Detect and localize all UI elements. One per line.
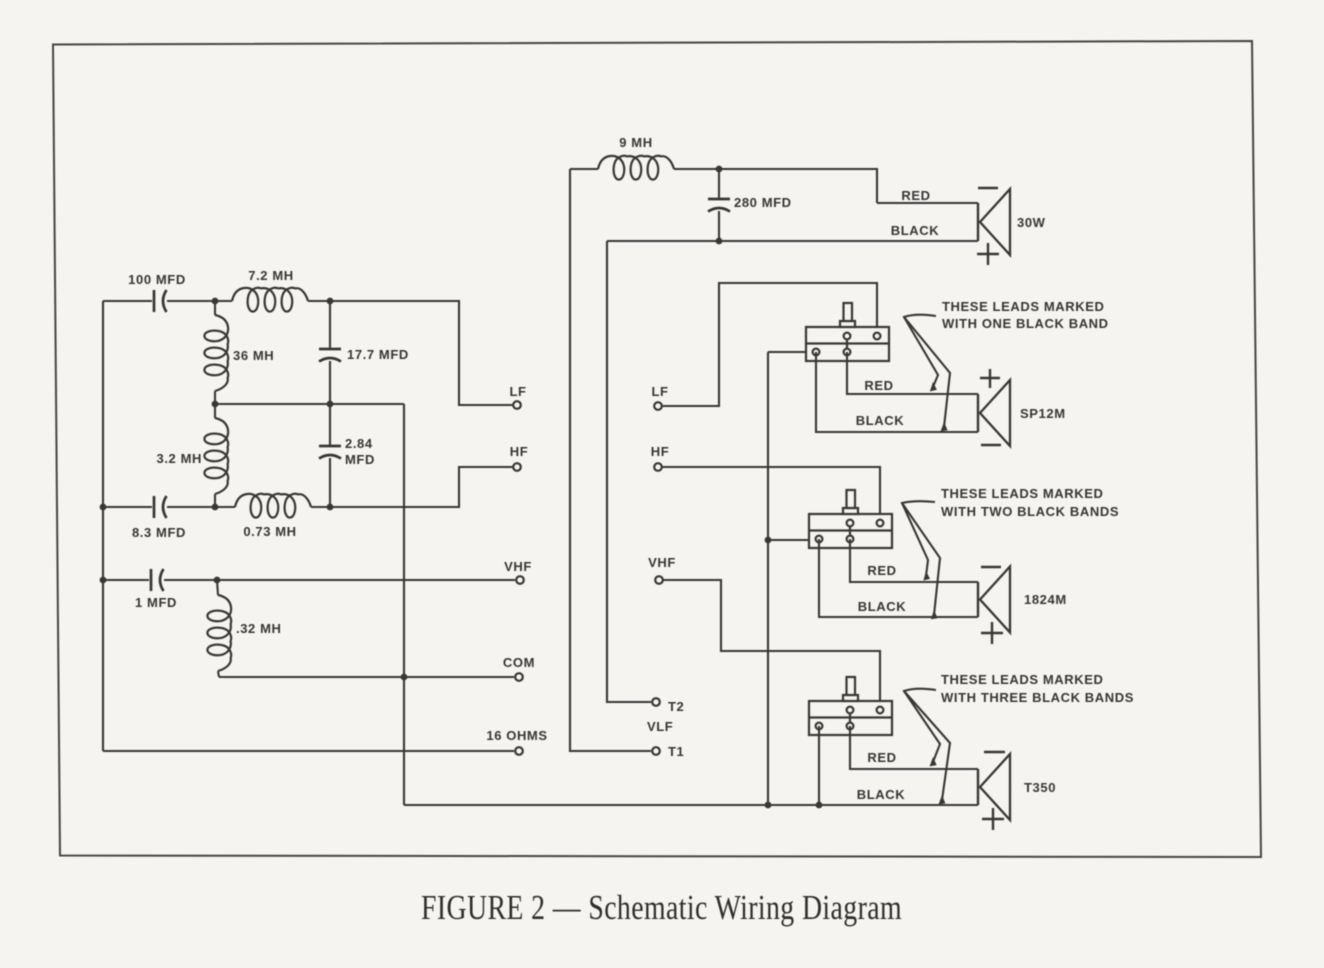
wire row3 seg a bbox=[103, 506, 152, 508]
svg-text:VHF: VHF bbox=[504, 559, 532, 574]
svg-text:1824M: 1824M bbox=[1024, 592, 1067, 607]
capacitor 2.84 MFD bbox=[319, 445, 341, 448]
svg-text:.32 MH: .32 MH bbox=[236, 621, 282, 636]
node row1-17.7MFD junction bbox=[327, 298, 334, 305]
svg-text:WITH THREE BLACK BANDS: WITH THREE BLACK BANDS bbox=[941, 690, 1134, 705]
speaker SP12M bbox=[980, 380, 1010, 446]
svg-text:FIGURE 2 — Schematic Wiring Di: FIGURE 2 — Schematic Wiring Diagram bbox=[421, 888, 902, 927]
wire 30W RED wire bbox=[877, 202, 978, 204]
speaker 30W bbox=[980, 189, 1010, 255]
inductor 7.2 MH bbox=[232, 288, 308, 312]
terminal HF left bbox=[513, 463, 521, 471]
terminal VHF left bbox=[516, 576, 524, 584]
wire bottom common wire bbox=[404, 804, 978, 806]
wire row1 seg a bbox=[103, 300, 152, 302]
polarity plus SP12M bbox=[980, 369, 1000, 388]
svg-text:HF: HF bbox=[510, 444, 529, 459]
wire 17.7MFD bottom lead bbox=[329, 361, 331, 404]
L-pad control 1 bbox=[806, 303, 889, 361]
wire T350 RED wire bbox=[850, 726, 978, 769]
svg-text:BLACK: BLACK bbox=[857, 787, 906, 802]
speaker 1824M bbox=[980, 567, 1010, 633]
capacitor 280 MFD bbox=[708, 198, 730, 201]
wire 280MFD top lead bbox=[718, 169, 720, 199]
terminal HF right bbox=[654, 463, 662, 471]
wire 280MFD bottom lead bbox=[718, 211, 720, 241]
node row3-2.84MFD junction bbox=[327, 504, 334, 511]
svg-text:THESE LEADS MARKED: THESE LEADS MARKED bbox=[941, 486, 1103, 501]
wire 36MH top lead bbox=[214, 301, 216, 315]
L-pad control 3 bbox=[809, 677, 892, 735]
wire row1 to LF terminal bbox=[308, 301, 513, 405]
svg-text:BLACK: BLACK bbox=[891, 223, 940, 238]
wire HF to L-pad2 bbox=[662, 467, 880, 523]
node 280MFD top junction bbox=[716, 166, 723, 173]
svg-text:LF: LF bbox=[509, 384, 526, 399]
terminal 16 OHMS bbox=[515, 747, 523, 755]
svg-text:100 MFD: 100 MFD bbox=[128, 272, 186, 287]
node row3 bus junction bbox=[100, 504, 107, 511]
wire SP12M RED wire bbox=[847, 352, 978, 394]
wire 17.7MFD top lead bbox=[329, 301, 331, 349]
svg-text:BLACK: BLACK bbox=[858, 599, 907, 614]
wire VHF to L-pad3 bbox=[663, 580, 880, 710]
wire 16 ohms row bbox=[103, 750, 514, 752]
inductor 36 MH bbox=[204, 315, 228, 391]
polarity plus 30W bbox=[977, 243, 999, 265]
border frame bbox=[53, 41, 1261, 857]
wire com row bbox=[219, 676, 514, 678]
svg-text:COM: COM bbox=[503, 655, 535, 670]
wire 2.84MFD top lead bbox=[329, 404, 331, 446]
svg-text:RED: RED bbox=[901, 188, 930, 203]
svg-text:WITH TWO BLACK BANDS: WITH TWO BLACK BANDS bbox=[941, 504, 1119, 519]
wire T350 BLACK lead bbox=[818, 726, 820, 805]
svg-text:17.7 MFD: 17.7 MFD bbox=[347, 347, 409, 362]
wire 1824M BLACK wire bbox=[819, 539, 978, 617]
node row1-36MH junction bbox=[212, 298, 219, 305]
svg-text:36 MH: 36 MH bbox=[233, 348, 274, 363]
capacitor 1 MFD bbox=[150, 569, 153, 591]
svg-text:THESE LEADS MARKED: THESE LEADS MARKED bbox=[942, 299, 1104, 314]
svg-text:MFD: MFD bbox=[345, 452, 375, 467]
wire chain vertical bbox=[767, 352, 769, 805]
svg-text:1 MFD: 1 MFD bbox=[135, 595, 177, 610]
svg-text:30W: 30W bbox=[1017, 215, 1046, 230]
wire chain to L-pad1 BL bbox=[768, 351, 816, 353]
svg-text:RED: RED bbox=[864, 378, 893, 393]
wire 9MH left lead bbox=[570, 168, 598, 170]
svg-text:16 OHMS: 16 OHMS bbox=[486, 728, 547, 743]
terminal T2 bbox=[652, 698, 660, 706]
wire T2 branch bbox=[607, 241, 651, 702]
svg-text:9 MH: 9 MH bbox=[619, 135, 652, 150]
polarity minus 30W bbox=[978, 187, 998, 189]
node row2 left junction bbox=[212, 401, 219, 408]
svg-text:T1: T1 bbox=[668, 744, 684, 759]
svg-text:VLF: VLF bbox=[647, 719, 673, 734]
svg-text:7.2 MH: 7.2 MH bbox=[248, 268, 294, 283]
svg-text:BLACK: BLACK bbox=[856, 413, 905, 428]
inductor 0.73 MH bbox=[235, 494, 311, 518]
wire row1 seg b bbox=[167, 300, 232, 302]
wire row3 to HF terminal bbox=[311, 467, 513, 507]
svg-text:RED: RED bbox=[867, 750, 896, 765]
wire LF to L-pad1 bbox=[662, 283, 877, 406]
wire mid bus vertical bbox=[403, 404, 405, 805]
node vhf bus junction bbox=[100, 577, 107, 584]
inductor .32 MH bbox=[207, 595, 231, 671]
node 280MFD bottom junction bbox=[716, 238, 723, 245]
wire left bus vertical bbox=[102, 301, 104, 751]
inductor 3.2 MH bbox=[204, 418, 228, 494]
polarity plus T350 bbox=[982, 808, 1004, 830]
node chain junction 2 bbox=[765, 537, 772, 544]
capacitor 17.7 MFD bbox=[319, 348, 341, 351]
svg-text:THESE LEADS MARKED: THESE LEADS MARKED bbox=[941, 672, 1103, 687]
svg-text:LF: LF bbox=[651, 384, 668, 399]
callout arrows 2 bbox=[902, 501, 935, 576]
L-pad control 2 bbox=[809, 490, 892, 548]
capacitor 8.3 MFD bbox=[153, 496, 156, 518]
callout arrows 3 bbox=[904, 689, 940, 762]
terminal COM bbox=[515, 673, 523, 681]
svg-text:0.73 MH: 0.73 MH bbox=[243, 524, 296, 539]
node T350 black junction bbox=[816, 802, 823, 809]
wire 1824M RED wire bbox=[850, 539, 978, 582]
svg-text:8.3 MFD: 8.3 MFD bbox=[132, 525, 186, 540]
node row2 right junction bbox=[327, 401, 334, 408]
wire 3.2MH top lead bbox=[214, 404, 216, 418]
wire 2.84MFD bottom lead bbox=[329, 458, 331, 507]
wire 30W BLACK wire bbox=[607, 240, 978, 242]
node chain junction bottom bbox=[765, 802, 772, 809]
polarity minus SP12M bbox=[981, 444, 1001, 446]
svg-text:RED: RED bbox=[867, 563, 896, 578]
node vhf-.32MH junction bbox=[214, 577, 221, 584]
svg-text:VHF: VHF bbox=[648, 555, 676, 570]
wire right bus to T1 bbox=[570, 169, 651, 751]
wire 3.2MH bottom lead bbox=[214, 494, 216, 507]
capacitor 100 MFD bbox=[153, 290, 156, 312]
wire top row to RED corner bbox=[674, 169, 877, 203]
svg-text:HF: HF bbox=[651, 444, 670, 459]
svg-text:WITH ONE BLACK BAND: WITH ONE BLACK BAND bbox=[942, 316, 1109, 331]
wire row2 horizontal bbox=[215, 403, 404, 405]
wire SP12M BLACK wire bbox=[816, 352, 978, 432]
wire .32MH bottom lead bbox=[218, 671, 219, 677]
polarity minus 1824M bbox=[981, 566, 1001, 568]
svg-text:3.2 MH: 3.2 MH bbox=[156, 451, 202, 466]
wire chain to L-pad2 BL bbox=[768, 539, 819, 541]
inductor 9 MH bbox=[598, 156, 674, 180]
terminal T1 bbox=[652, 747, 660, 755]
wire 36MH bottom lead bbox=[214, 391, 216, 404]
polarity minus T350 bbox=[984, 751, 1005, 753]
terminal LF right bbox=[654, 402, 662, 410]
wire vhf seg a bbox=[103, 579, 149, 581]
svg-text:280 MFD: 280 MFD bbox=[734, 195, 792, 210]
node com-midbus junction bbox=[401, 674, 408, 681]
terminal LF left bbox=[513, 401, 521, 409]
wire .32MH top lead bbox=[217, 580, 218, 595]
polarity plus 1824M bbox=[981, 622, 1003, 644]
wire row3 seg b bbox=[167, 506, 235, 508]
wire vhf seg b bbox=[164, 579, 515, 581]
svg-text:2.84: 2.84 bbox=[345, 436, 373, 451]
callout arrows 1 bbox=[904, 315, 938, 387]
terminal VHF right bbox=[655, 576, 663, 584]
svg-text:SP12M: SP12M bbox=[1020, 406, 1066, 421]
speaker T350 bbox=[980, 754, 1010, 820]
node row3-3.2MH junction bbox=[212, 504, 219, 511]
svg-text:T2: T2 bbox=[668, 699, 684, 714]
svg-text:T350: T350 bbox=[1024, 780, 1056, 795]
